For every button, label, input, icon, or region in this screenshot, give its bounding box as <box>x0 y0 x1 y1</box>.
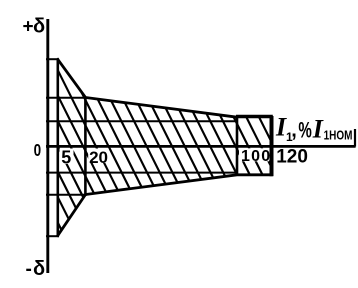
svg-text:100: 100 <box>241 148 271 165</box>
svg-text:-: - <box>26 259 32 280</box>
svg-text:1НОМ: 1НОМ <box>324 129 353 142</box>
svg-text:20: 20 <box>89 148 108 167</box>
svg-text:,: , <box>291 119 297 141</box>
svg-text:I: I <box>312 115 324 144</box>
svg-text:%: % <box>298 118 312 142</box>
svg-text:+: + <box>23 17 34 38</box>
svg-text:δ: δ <box>33 16 45 38</box>
svg-text:5: 5 <box>61 148 71 168</box>
svg-text:0: 0 <box>34 141 42 160</box>
svg-text:120: 120 <box>276 147 308 168</box>
svg-text:δ: δ <box>33 258 45 280</box>
